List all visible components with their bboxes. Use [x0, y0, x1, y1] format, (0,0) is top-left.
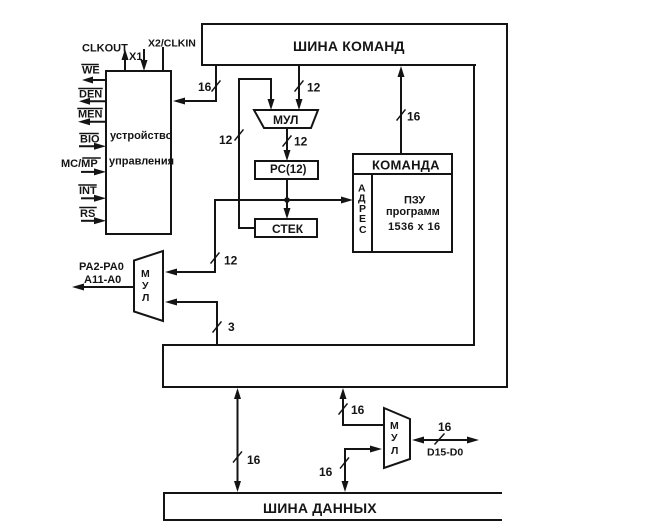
- svg-text:16: 16: [198, 80, 212, 94]
- wire: command bus to МУЛ, width 12: [298, 65, 300, 100]
- ROM U3 КОМАНДА / ПЗУ программ 1536x16: [353, 154, 452, 252]
- mux U4 МУЛ (address multiplexer): [134, 251, 163, 321]
- wire: data bus to data mux, width 16: [345, 449, 376, 486]
- svg-text:PA2-PA0: PA2-PA0: [79, 261, 124, 273]
- svg-text:X1: X1: [129, 51, 142, 63]
- wire: МУЛ to PC(12), width 12: [286, 128, 288, 151]
- pin X1 (input, arrow down): [143, 50, 145, 60]
- svg-text:A11-A0: A11-A0: [84, 274, 121, 286]
- svg-text:16: 16: [247, 453, 261, 467]
- wire: data mux to D15-D0 port, width 16 (bidirectional): [418, 439, 473, 441]
- svg-text:программ: программ: [386, 206, 440, 218]
- svg-text:Л: Л: [391, 445, 398, 457]
- data bus ШИНА ДАННЫХ: [164, 493, 501, 520]
- svg-text:Л: Л: [142, 292, 149, 304]
- wire: КОМАНДА output to command bus, width 16: [400, 76, 402, 154]
- svg-text:WE: WE: [82, 65, 100, 77]
- command bus ШИНА КОМАНД: [202, 24, 507, 386]
- wire: internal bus to data bus, width 16 (bidirectional): [237, 394, 239, 487]
- svg-text:MEN: MEN: [78, 109, 103, 121]
- wire: inner vertical from command bus down to internal bus: [473, 65, 475, 345]
- pin CLKOUT (output, arrow up): [124, 59, 126, 71]
- wire: command bus to control unit, width 16: [177, 65, 216, 101]
- svg-text:16: 16: [319, 465, 333, 479]
- svg-text:У: У: [391, 432, 398, 444]
- svg-text:М: М: [141, 268, 150, 280]
- svg-text:ШИНА ДАННЫХ: ШИНА ДАННЫХ: [263, 500, 377, 516]
- svg-text:1536 х 16: 1536 х 16: [388, 221, 441, 233]
- svg-text:16: 16: [407, 110, 421, 124]
- svg-text:У: У: [142, 280, 149, 292]
- mux U5 МУЛ (data I/O multiplexer): [384, 408, 410, 468]
- pin X2/CLKIN (input): [162, 48, 164, 71]
- svg-text:X2/CLKIN: X2/CLKIN: [148, 38, 196, 50]
- svg-text:16: 16: [438, 420, 452, 434]
- wire: address mux output PA2-PA0 / A11-A0: [78, 286, 134, 288]
- svg-text:DEN: DEN: [79, 89, 102, 101]
- svg-text:СТЕК: СТЕК: [272, 222, 304, 236]
- svg-text:МУЛ: МУЛ: [273, 113, 298, 127]
- svg-text:CLKOUT: CLKOUT: [82, 43, 128, 55]
- svg-text:12: 12: [219, 133, 233, 147]
- wire: data mux to internal bus, width 16: [343, 394, 384, 425]
- svg-text:12: 12: [294, 135, 308, 149]
- svg-text:КОМАНДА: КОМАНДА: [372, 158, 440, 173]
- control unit U1 устройство управления: [106, 71, 171, 234]
- svg-text:12: 12: [224, 254, 238, 268]
- svg-text:12: 12: [307, 81, 321, 95]
- svg-text:3: 3: [228, 320, 235, 334]
- svg-text:ПЗУ: ПЗУ: [404, 195, 425, 207]
- internal bus box: [163, 345, 507, 387]
- wire: PC(12) to СТЕК: [286, 179, 288, 209]
- wire: СТЕК feedback to МУЛ, width 12: [239, 79, 271, 228]
- svg-text:управления: управления: [109, 156, 174, 168]
- register СТЕК (stack): [255, 219, 317, 237]
- svg-text:D15-D0: D15-D0: [427, 447, 463, 459]
- svg-text:М: М: [390, 420, 399, 432]
- register PC(12): [255, 161, 318, 179]
- svg-text:С: С: [359, 224, 367, 236]
- svg-text:16: 16: [351, 403, 365, 417]
- svg-text:MC/MP: MC/MP: [61, 158, 98, 170]
- svg-text:ШИНА КОМАНД: ШИНА КОМАНД: [293, 38, 405, 54]
- svg-text:RS: RS: [80, 208, 95, 220]
- mux U2 МУЛ (program counter multiplexer): [254, 110, 318, 128]
- wire: internal bus to address mux, width 3: [171, 302, 217, 345]
- svg-text:устройство: устройство: [110, 130, 173, 142]
- wire: PC output to address mux, width 12: [171, 200, 287, 272]
- svg-text:PC(12): PC(12): [270, 164, 307, 176]
- wire: PC output to КОМАНДА address port: [287, 199, 345, 201]
- junction: PC output node: [284, 197, 290, 203]
